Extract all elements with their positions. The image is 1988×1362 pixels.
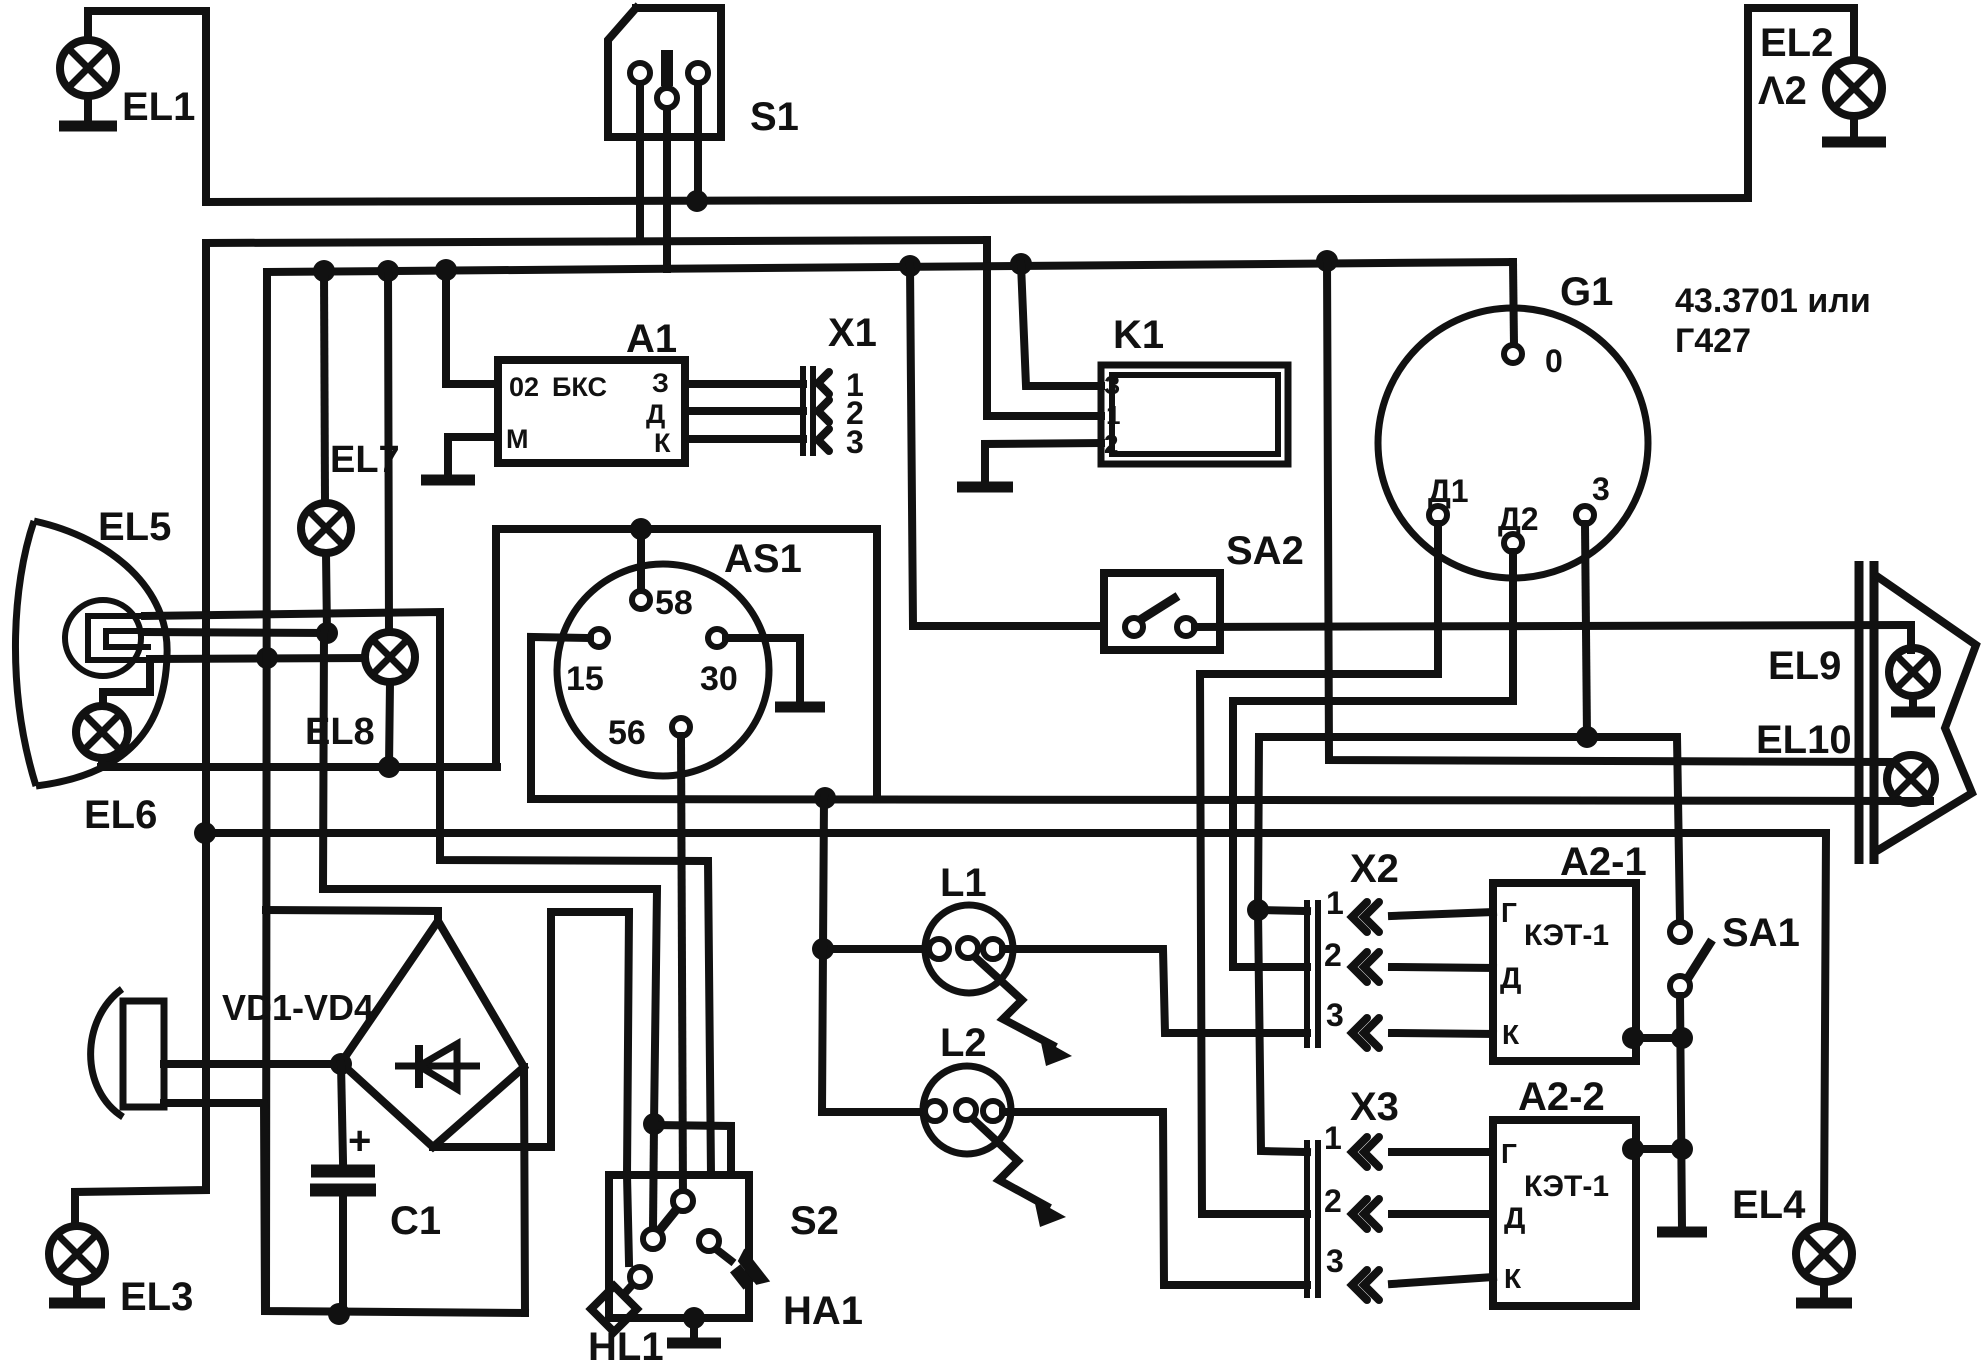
wire C1 bottom lead [339, 1197, 347, 1314]
contact X3 pin2 [1352, 1199, 1379, 1229]
wire net3 horizontal y737 [1259, 737, 1680, 922]
wire EL8 to bus767 [389, 682, 390, 767]
wire bus3 to A1 pin 02 [446, 270, 498, 384]
label X1 pin1 [846, 367, 864, 403]
junction SA1-A2-2 [1671, 1138, 1693, 1160]
wire S2 branch right [654, 1125, 731, 1175]
coil L1 [925, 905, 1013, 993]
wire D2 to X2 pin2 [1233, 552, 1513, 967]
svg-text:L1: L1 [940, 861, 987, 905]
wire L1 to X2 pin3 [1003, 949, 1307, 1033]
label X2 [1350, 847, 1399, 891]
label EL8 [305, 711, 375, 753]
ground EL4 [1796, 1282, 1852, 1303]
svg-text:К: К [654, 428, 671, 458]
label C1 [390, 1199, 441, 1243]
svg-text:EL3: EL3 [120, 1275, 193, 1319]
diode symbol inside bridge [395, 1044, 480, 1089]
label EL7 [330, 439, 400, 481]
svg-text:2: 2 [1104, 429, 1118, 459]
label X2 pin3 [1326, 997, 1344, 1033]
label EL3 [120, 1275, 193, 1319]
svg-text:A2-1: A2-1 [1560, 840, 1647, 884]
svg-text:EL8: EL8 [305, 711, 375, 753]
wire x654 into S2 [653, 1124, 654, 1229]
ground EL2 [1822, 116, 1886, 142]
connector X2 bars [1307, 900, 1318, 1048]
wire EL6 to bus767 [98, 758, 106, 767]
wire bus3 to EL10 [1327, 261, 1890, 762]
svg-text:EL1: EL1 [122, 85, 195, 129]
svg-text:58: 58 [655, 584, 693, 622]
svg-text:43.3701 или: 43.3701 или [1675, 282, 1871, 320]
junction L1 branch [812, 938, 834, 960]
wire EL6 to socket [103, 661, 150, 705]
label G1 [1560, 270, 1613, 314]
wire x627 inside S2 [627, 1175, 629, 1263]
ground SA1 [1657, 1226, 1707, 1232]
junction bus3 x388 [377, 260, 399, 282]
svg-text:EL4: EL4 [1732, 1183, 1806, 1227]
contact X2 pin1 [1352, 902, 1379, 932]
junction bus833 on x206 [194, 822, 216, 844]
svg-text:Г: Г [1501, 1138, 1517, 1169]
wire bus2 [206, 240, 987, 243]
headlamp EL5 housing [15, 521, 167, 786]
wire S1 right pin to bus1 [694, 84, 702, 201]
wire bus833 (EL4 rail) [205, 833, 1826, 1226]
label EL2 [1760, 21, 1833, 65]
svg-text:3: 3 [1326, 1243, 1344, 1279]
wire x267 to bridge apex [266, 910, 438, 923]
svg-text:30: 30 [700, 660, 738, 698]
wire A1 pin D to X1 [685, 407, 803, 415]
contact X3 pin3 [1352, 1270, 1379, 1300]
terminal 15 of AS1 [590, 629, 608, 647]
label S1 [750, 95, 799, 139]
junction bus3 x1327 [1316, 250, 1338, 272]
svg-text:1: 1 [1326, 885, 1344, 921]
svg-text:3: 3 [1326, 997, 1344, 1033]
svg-text:EL6: EL6 [84, 793, 157, 837]
wire bridge bottom vertex to S2 riser [433, 1143, 551, 1151]
svg-text:0: 0 [1545, 343, 1563, 379]
wire terminal3 down [1585, 524, 1587, 737]
block A2-2 [1493, 1120, 1636, 1306]
wire vertical x206 (EL3 rail) [75, 243, 206, 1226]
label HA1 [783, 1289, 863, 1333]
label K1 [1113, 313, 1164, 357]
contact X1 pin3 [818, 429, 829, 451]
svg-text:EL9: EL9 [1768, 644, 1841, 688]
contact X1 pin1 [818, 372, 829, 394]
junction bus3 x910 [899, 255, 921, 277]
switch AS1 box [496, 529, 877, 799]
ground EL1 [59, 96, 117, 126]
svg-text:02: 02 [509, 372, 539, 402]
svg-text:K1: K1 [1113, 313, 1164, 357]
wire EL1 to bus1 [88, 11, 206, 202]
wire X3 pin3 to A2-2 K [1392, 1277, 1493, 1284]
label X2 pin1 [1326, 885, 1344, 921]
wire net3 vertical x1259 [1258, 737, 1307, 1152]
wire SA2 bus to EL9 [1195, 625, 1911, 650]
label X1 [828, 311, 877, 355]
ground A1 [421, 474, 475, 480]
svg-text:56: 56 [608, 714, 646, 752]
wire L2 to X3 pin3 [1003, 1112, 1307, 1285]
wire 56 to S2 [681, 736, 683, 1201]
label HL1 [588, 1325, 664, 1362]
wire 30 to ground [726, 638, 800, 700]
lamp EL7 [301, 503, 351, 553]
label A2-2 [1518, 1075, 1605, 1119]
tail bracket bars [1859, 561, 1874, 864]
ground EL9 [1891, 696, 1935, 712]
tail bracket housing [1878, 577, 1976, 849]
svg-text:КЭТ-1: КЭТ-1 [1524, 919, 1609, 952]
svg-text:Г427: Г427 [1675, 322, 1751, 360]
label L1 [940, 861, 987, 905]
wire K1 pin2 to ground [985, 443, 1101, 480]
label EL5 [98, 505, 171, 549]
wire EL5 line B [145, 632, 326, 633]
wire S1 middle pin to bus3 [663, 109, 671, 269]
lamp EL2 [1826, 60, 1882, 116]
wire bridge right vertex down [524, 1067, 525, 1313]
label X3 pin2 [1324, 1183, 1342, 1219]
label X1 pin2 [846, 395, 864, 431]
switch S2 box [609, 1175, 749, 1318]
label EL6 [84, 793, 157, 837]
label A2-1 [1560, 840, 1647, 884]
junction bridge left vertex [330, 1053, 352, 1075]
wire bus3 to K1 pin Z [1021, 264, 1101, 386]
wire A1 pin Z to X1 [685, 380, 803, 388]
bulb of EL5 [65, 600, 141, 676]
capacitor C1 [310, 1119, 376, 1190]
wire EL5 line C [150, 658, 365, 659]
junction L-coils on bus799 [814, 787, 836, 809]
label EL1 [122, 85, 195, 129]
lamp EL8 [365, 632, 415, 682]
junction S1 right pin on bus1 [686, 190, 708, 212]
label L2 [940, 1021, 987, 1065]
label D1 terminal [1428, 473, 1469, 509]
wire vertical EL7 branch [324, 271, 325, 503]
svg-text:HA1: HA1 [783, 1289, 863, 1333]
wire bus799 (tail rail) [531, 799, 1930, 801]
svg-text:EL5: EL5 [98, 505, 171, 549]
wire vertical x267 rail [266, 272, 525, 1313]
label 0 terminal [1545, 343, 1563, 379]
svg-text:SA1: SA1 [1722, 911, 1800, 955]
ground EL3 [49, 1282, 105, 1303]
connector X3 bars [1307, 1140, 1318, 1298]
svg-text:1: 1 [1324, 1120, 1342, 1156]
terminal 3 of G1 [1576, 506, 1594, 524]
lamp EL3 [49, 1226, 105, 1282]
wire X2 pin3 to A2-1 K [1392, 1033, 1493, 1034]
wire X2 pin1 branch [1258, 910, 1307, 911]
wire D1 to X3 pin2 [1200, 524, 1438, 1214]
junction A2-1 right edge [1622, 1027, 1644, 1049]
contact X2 pin3 [1352, 1018, 1379, 1048]
svg-text:БКС: БКС [552, 372, 607, 402]
wire horn bottom [164, 1103, 265, 1311]
generator G1 [1378, 308, 1648, 578]
wire bus3 to G1 terminal O [1513, 262, 1514, 345]
indicator HL1 [591, 1286, 637, 1332]
junction C1 bottom on ground bus [328, 1303, 350, 1325]
wire EL5 high-beam line A [145, 612, 711, 1175]
switch AS1 circle [557, 564, 769, 776]
spark arrow of L1 [975, 957, 1072, 1066]
svg-text:3: 3 [1592, 471, 1610, 507]
svg-text:З: З [652, 368, 669, 398]
svg-text:X2: X2 [1350, 847, 1399, 891]
svg-text:1: 1 [1106, 400, 1120, 430]
label 3 terminal [1592, 471, 1610, 507]
label L2 (lamp alt name) [1758, 69, 1807, 113]
svg-text:К: К [1504, 1263, 1522, 1294]
svg-text:КЭТ-1: КЭТ-1 [1524, 1170, 1609, 1203]
svg-text:S2: S2 [790, 1199, 839, 1243]
coil L2 [923, 1066, 1011, 1154]
junction line C with x267 rail [256, 647, 278, 669]
wire vertical EL8 branch [388, 271, 389, 632]
horn HA1 [724, 1248, 770, 1297]
svg-text:Д2: Д2 [1498, 501, 1539, 537]
junction bus3 x446 [435, 259, 457, 281]
svg-text:SA2: SA2 [1226, 529, 1304, 573]
wire L1 feed continues to L2 [822, 949, 926, 1112]
lamp EL4 [1796, 1226, 1852, 1282]
speaker HA horn housing [91, 989, 164, 1117]
contact X2 pin2 [1352, 952, 1379, 982]
junction S2 branch [643, 1113, 665, 1135]
junction terminal3 on net3 [1576, 726, 1598, 748]
svg-text:З: З [1104, 370, 1120, 400]
wire bus767 (EL6-EL8-AS1 rail) [101, 763, 497, 771]
label VD1-VD4 [222, 987, 374, 1028]
wire A1 pin M to ground [448, 437, 498, 474]
label SA1 [1722, 911, 1800, 955]
terminal 30 of AS1 [708, 629, 726, 647]
label A1 [626, 317, 677, 361]
svg-text:15: 15 [566, 660, 604, 698]
svg-text:S1: S1 [750, 95, 799, 139]
junction X2pin1 branch [1247, 899, 1269, 921]
svg-text:М: М [506, 424, 529, 454]
wire C1 top lead [341, 1064, 343, 1161]
svg-text:+: + [348, 1119, 371, 1163]
block A2-1 [1493, 883, 1636, 1061]
svg-text:Д: Д [646, 399, 665, 429]
terminal D2 of G1 [1504, 534, 1522, 552]
svg-text:3: 3 [846, 424, 864, 460]
label X1 pin3 [846, 424, 864, 460]
switch SA1 [1670, 922, 1712, 996]
wire bus799 to L1 [823, 798, 930, 949]
ground S2 [667, 1318, 721, 1343]
contact X1 pin2 [818, 400, 829, 422]
wire bus3 to SA2 [910, 266, 1104, 626]
label X3 [1350, 1085, 1399, 1129]
wire bus3 (main rail) [267, 262, 1513, 272]
EL5 filament sockets [88, 616, 148, 660]
label EL4 [1732, 1183, 1806, 1227]
wire riser over to S2 [551, 912, 629, 1175]
block A1 (BKS) [498, 360, 685, 463]
spark arrow of L2 [973, 1119, 1066, 1227]
svg-text:X3: X3 [1350, 1085, 1399, 1129]
switch S1 [608, 8, 721, 137]
terminal 58 of AS1 [632, 591, 650, 609]
wire horn top to bridge [164, 1060, 336, 1068]
ground AS1-30 [775, 700, 825, 707]
label X3 pin1 [1324, 1120, 1342, 1156]
svg-text:X1: X1 [828, 311, 877, 355]
wire S1 left pin to bus2 [636, 84, 644, 241]
wire A1 pin K to X1 [685, 435, 803, 443]
wire X2 pin2 to A2-1 D [1392, 967, 1493, 968]
svg-text:Д1: Д1 [1428, 473, 1469, 509]
svg-text:C1: C1 [390, 1199, 441, 1243]
terminal O of G1 [1504, 345, 1522, 363]
wire X3 pin1 to A2-2 G [1392, 1148, 1493, 1156]
junction A2-2 right edge [1622, 1138, 1644, 1160]
label 30 [700, 660, 738, 698]
connector X1 bars [803, 366, 813, 456]
svg-text:A2-2: A2-2 [1518, 1075, 1605, 1119]
lamp EL6 [76, 706, 128, 758]
wire A2-1 K to SA1 [1633, 1034, 1682, 1042]
label X2 pin2 [1324, 937, 1342, 973]
svg-text:Г: Г [1501, 897, 1517, 928]
svg-text:2: 2 [1324, 937, 1342, 973]
wire 58 stub [637, 529, 645, 592]
svg-text:L2: L2 [940, 1021, 987, 1065]
junction S2 ground [683, 1307, 705, 1329]
diode bridge VD1-VD4 [341, 921, 524, 1147]
label D2 terminal [1498, 501, 1539, 537]
block K1 [1101, 365, 1288, 464]
svg-text:HL1: HL1 [588, 1325, 664, 1362]
ground K1 [957, 480, 1013, 487]
lamp EL10 [1887, 755, 1935, 803]
switch SA2 [1104, 573, 1220, 650]
wire 15 to bus799 [531, 637, 590, 799]
wire X2 pin1 to A2-1 G [1392, 912, 1493, 916]
label 56 [608, 714, 646, 752]
svg-text:2: 2 [1324, 1183, 1342, 1219]
svg-text:VD1-VD4: VD1-VD4 [222, 987, 374, 1028]
svg-text:Λ2: Λ2 [1758, 69, 1807, 113]
wire bus2 drop to K1 pin1 [987, 240, 1101, 416]
contact X3 pin1 [1352, 1137, 1379, 1167]
label G1 type line2 [1675, 322, 1751, 360]
wire EL7-rail to S2 [323, 633, 657, 1124]
junction EL8 on bus767 [378, 756, 400, 778]
wire bus1 to EL2 [1748, 8, 1854, 198]
label EL10 [1756, 718, 1852, 762]
svg-text:К: К [1502, 1019, 1520, 1050]
label S2 [790, 1199, 839, 1243]
junction 58 on AS1 top [630, 518, 652, 540]
label AS1 [724, 537, 802, 581]
svg-text:EL10: EL10 [1756, 718, 1852, 762]
terminal 56 of AS1 [672, 718, 690, 736]
wire EL7 to EL5 node [326, 553, 327, 633]
wire bus1 (EL1-EL2 top rail) [206, 198, 1748, 202]
svg-text:A1: A1 [626, 317, 677, 361]
junction bus3 x1021 [1010, 253, 1032, 275]
label X3 pin3 [1326, 1243, 1344, 1279]
label G1 type line1 [1675, 282, 1871, 320]
junction bus3 x324 [313, 260, 335, 282]
label 58 [655, 584, 693, 622]
svg-text:Д: Д [1504, 1202, 1525, 1235]
label 15 [566, 660, 604, 698]
svg-text:AS1: AS1 [724, 537, 802, 581]
lamp EL9 [1889, 648, 1937, 696]
terminal D1 of G1 [1429, 506, 1447, 524]
label SA2 [1226, 529, 1304, 573]
S2 contacts and lever [625, 1191, 734, 1293]
junction SA1-A2-1 [1671, 1027, 1693, 1049]
label EL9 [1768, 644, 1841, 688]
wire SA1 lower to ground [1680, 996, 1682, 1228]
lamp EL1 [60, 40, 116, 96]
wire X3 pin2 to A2-2 D [1392, 1210, 1493, 1218]
wire A2-2 right to SA1 [1633, 1145, 1682, 1153]
junction line B with EL7 rail [316, 622, 338, 644]
svg-text:EL2: EL2 [1760, 21, 1833, 65]
svg-text:Д: Д [1500, 962, 1521, 995]
svg-text:G1: G1 [1560, 270, 1613, 314]
